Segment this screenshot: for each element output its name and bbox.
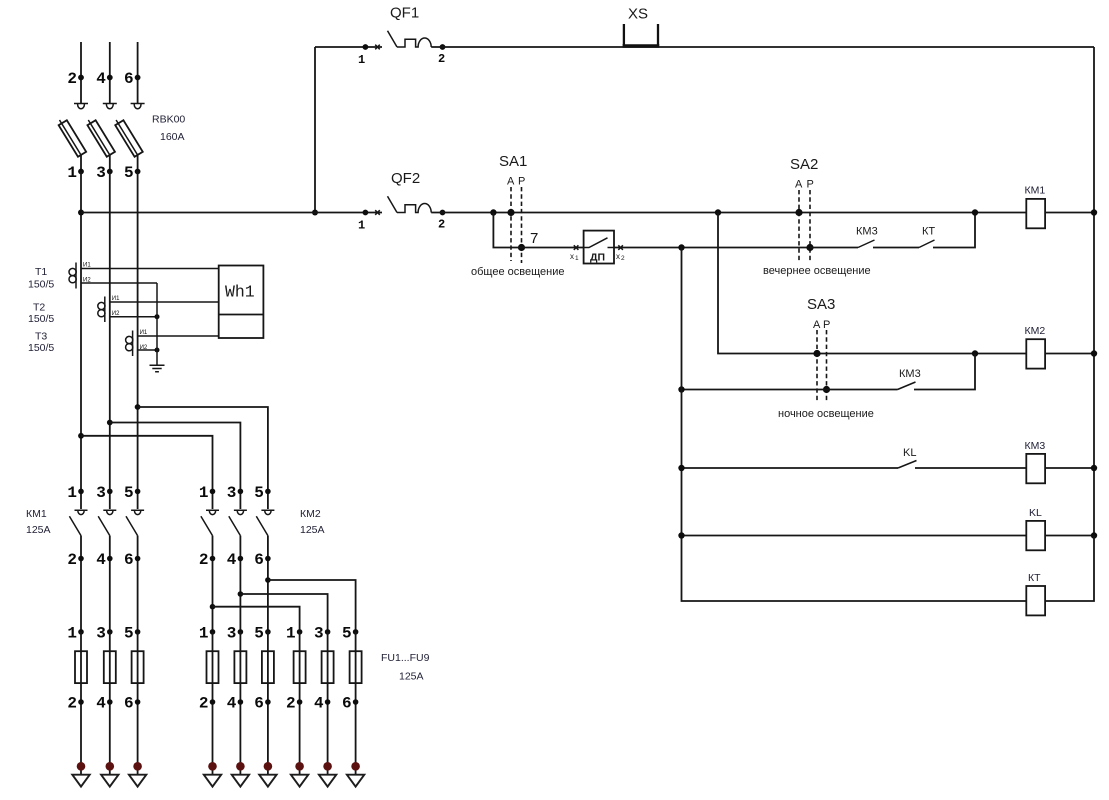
contact KT row2 — [873, 226, 935, 248]
svg-text:5: 5 — [254, 484, 264, 502]
wire row5 — [682, 467, 899, 469]
svg-text:6: 6 — [254, 551, 264, 569]
svg-text:5: 5 — [254, 624, 264, 642]
svg-text:КМ1: КМ1 — [1025, 185, 1046, 197]
wire KM1 coil to rail — [1045, 212, 1094, 214]
node rail row5 — [1091, 465, 1097, 471]
svg-text:1: 1 — [67, 624, 77, 642]
svg-text:XS: XS — [628, 6, 648, 23]
svg-text:Р: Р — [518, 176, 525, 188]
svg-text:Wh1: Wh1 — [225, 283, 255, 302]
fuse RBK00 pole A — [59, 120, 87, 172]
ground — [150, 365, 165, 371]
switch SA3 — [813, 319, 830, 402]
svg-text:5: 5 — [124, 164, 134, 182]
node KM2 feed phase C — [135, 404, 141, 410]
contact KM3 row2 — [810, 226, 878, 248]
svg-text:FU1...FU9: FU1...FU9 — [381, 652, 430, 664]
coil KM1 — [1025, 185, 1046, 229]
contactor KM2 pole 3 — [254, 484, 274, 632]
wire row5 to KM3 coil — [915, 467, 1026, 469]
svg-text:2: 2 — [67, 70, 77, 88]
wire feeder branch to FU column 8 — [240, 594, 327, 632]
node T2 return junction — [155, 314, 160, 319]
wire control line left segment — [81, 212, 382, 214]
svg-text:SA2: SA2 — [790, 156, 818, 173]
terminal 1 — [78, 169, 84, 175]
svg-text:KL: KL — [903, 447, 916, 459]
fuse RBK00 pole C — [115, 120, 143, 172]
wire KM2 feed phase A — [81, 436, 213, 509]
fuse FU3 feeder — [124, 624, 146, 786]
svg-text:4: 4 — [96, 551, 106, 569]
svg-text:160А: 160А — [160, 131, 185, 143]
wire riser to top line — [314, 47, 316, 213]
svg-text:КМ3: КМ3 — [856, 226, 878, 238]
CT T2 — [98, 296, 120, 322]
svg-text:4: 4 — [227, 695, 237, 713]
svg-text:И1: И1 — [83, 263, 91, 269]
node phase A / control tap — [78, 210, 84, 216]
node feeder branch 2 — [210, 604, 216, 610]
svg-text:Т1: Т1 — [35, 266, 47, 278]
node KM2 feed phase A — [78, 433, 84, 439]
svg-text:ночное освещение: ночное освещение — [778, 408, 874, 420]
wire KM2 feed phase B — [110, 423, 241, 510]
pin x1 — [574, 245, 579, 250]
node T3 return junction — [155, 348, 160, 353]
svg-text:КТ: КТ — [1028, 572, 1041, 584]
svg-text:И1: И1 — [112, 296, 120, 302]
svg-text:Т3: Т3 — [35, 331, 47, 343]
svg-text:1: 1 — [575, 255, 579, 262]
svg-text:вечернее освещение: вечернее освещение — [763, 265, 871, 277]
terminal 5 — [135, 169, 141, 175]
svg-text:4: 4 — [96, 695, 106, 713]
fuse FU5 feeder — [227, 624, 249, 786]
svg-text:3: 3 — [96, 484, 106, 502]
fuse FU9 feeder — [342, 624, 364, 786]
wire feeder branch to FU column 9 — [268, 580, 356, 632]
terminal 2 — [78, 75, 84, 81]
svg-text:QF2: QF2 — [391, 170, 420, 187]
node row4/row3 join — [972, 350, 978, 356]
svg-text:KL: KL — [1029, 507, 1042, 519]
wire top line right segment — [431, 46, 1094, 48]
svg-text:1: 1 — [67, 164, 77, 182]
wire KM3 coil to rail — [1045, 467, 1094, 469]
svg-text:А: А — [507, 176, 515, 188]
contact KM3 row4 — [898, 368, 921, 390]
svg-text:4: 4 — [227, 551, 237, 569]
node row2/row1 join — [972, 209, 978, 215]
svg-text:SA3: SA3 — [807, 296, 835, 313]
svg-text:А: А — [813, 319, 821, 331]
svg-text:И1: И1 — [140, 330, 148, 336]
wire input phase C — [137, 42, 139, 104]
svg-text:А: А — [795, 179, 803, 191]
fuse RBK00 pole B — [87, 120, 115, 172]
wire row4 riser — [914, 354, 975, 390]
svg-text:3: 3 — [314, 624, 324, 642]
wire phase A vertical — [80, 172, 82, 510]
switch SA1 — [507, 176, 525, 264]
svg-text:Р: Р — [807, 179, 814, 191]
svg-text:2: 2 — [438, 52, 445, 66]
node rail row1 — [1091, 209, 1097, 215]
contactor KM1 pole 3 — [124, 484, 144, 632]
svg-text:x: x — [616, 252, 620, 261]
node left rail row5 — [678, 465, 684, 471]
switch SA2 — [795, 179, 814, 263]
meter Wh1 — [219, 266, 264, 339]
wire KM2 feed phase C — [138, 407, 268, 509]
wire KT coil to rail — [1045, 536, 1094, 602]
node feeder branch 6 — [265, 577, 271, 583]
terminal 6 — [135, 75, 141, 81]
wire T1 secondary to Wh1 — [81, 268, 219, 270]
svg-text:6: 6 — [124, 695, 134, 713]
fuse FU2 feeder — [96, 624, 118, 786]
contactor KM1 pole 1 — [67, 484, 87, 632]
terminal 4 — [107, 75, 113, 81]
wire T2 secondary return — [110, 316, 157, 318]
wire input phase A — [80, 42, 82, 104]
svg-text:КМ2: КМ2 — [300, 508, 321, 520]
contactor KM1 pole 2 — [96, 484, 116, 632]
photo sensor DP — [584, 231, 614, 264]
svg-text:Р: Р — [823, 319, 830, 331]
wire KM2 coil to rail — [1045, 353, 1094, 355]
svg-text:6: 6 — [124, 551, 134, 569]
socket XS — [623, 24, 660, 46]
svg-text:2: 2 — [438, 218, 445, 232]
svg-text:6: 6 — [342, 695, 352, 713]
svg-text:2: 2 — [199, 695, 209, 713]
socket contact phase C — [131, 104, 145, 109]
wire input phase B — [109, 42, 111, 104]
svg-text:1: 1 — [358, 53, 365, 67]
svg-text:3: 3 — [227, 624, 237, 642]
wire T1 secondary return — [81, 282, 157, 284]
svg-text:ДП: ДП — [590, 252, 605, 264]
svg-text:2: 2 — [199, 551, 209, 569]
node KM2 feed phase B — [107, 420, 113, 426]
node left rail row6 — [678, 532, 684, 538]
node feeder branch 4 — [238, 591, 244, 597]
breaker QF2 — [358, 196, 445, 232]
wire row3 — [718, 213, 1026, 354]
svg-text:3: 3 — [96, 164, 106, 182]
svg-text:4: 4 — [96, 70, 106, 88]
svg-text:5: 5 — [342, 624, 352, 642]
fuse FU1 feeder — [67, 624, 89, 786]
svg-text:1: 1 — [199, 484, 209, 502]
terminal 3 — [107, 169, 113, 175]
wire KL coil to rail — [1045, 535, 1094, 537]
svg-text:5: 5 — [124, 624, 134, 642]
svg-text:2: 2 — [67, 695, 77, 713]
svg-text:КМ1: КМ1 — [26, 508, 47, 520]
wire T3 secondary return — [138, 349, 157, 351]
svg-text:6: 6 — [124, 70, 134, 88]
breaker QF1 — [358, 31, 445, 67]
svg-text:3: 3 — [96, 624, 106, 642]
wire right rail — [1093, 47, 1095, 536]
svg-text:2: 2 — [67, 551, 77, 569]
wire DP to left rail — [614, 247, 810, 249]
wire row2 riser — [933, 213, 975, 248]
svg-text:1: 1 — [199, 624, 209, 642]
svg-text:150/5: 150/5 — [28, 342, 54, 354]
fuse FU7 feeder — [286, 624, 308, 786]
wire phase C vertical — [137, 172, 139, 510]
node row3 tap — [715, 209, 721, 215]
svg-text:1: 1 — [358, 219, 365, 233]
svg-text:1: 1 — [286, 624, 296, 642]
wire control line to KM1 coil — [431, 212, 1026, 214]
wire row4 — [682, 389, 898, 391]
svg-text:1: 1 — [67, 484, 77, 502]
socket contact phase B — [103, 104, 117, 109]
svg-text:2: 2 — [286, 695, 296, 713]
socket contact phase A — [74, 104, 88, 109]
svg-text:SA1: SA1 — [499, 153, 527, 170]
svg-text:125А: 125А — [300, 524, 325, 536]
svg-text:КТ: КТ — [922, 226, 935, 238]
wire row6 — [682, 535, 1027, 537]
svg-text:QF1: QF1 — [390, 5, 419, 22]
svg-text:КМ2: КМ2 — [1025, 325, 1046, 337]
coil KM3 — [1025, 440, 1046, 483]
svg-text:RBK00: RBK00 — [152, 114, 185, 126]
fuse FU8 feeder — [314, 624, 336, 786]
svg-text:2: 2 — [621, 255, 625, 262]
svg-text:4: 4 — [314, 695, 324, 713]
contactor KM2 pole 1 — [199, 484, 219, 632]
fuse FU6 feeder — [254, 624, 276, 786]
node rail row6 — [1091, 532, 1097, 538]
wire left rail — [682, 248, 1027, 602]
contact KL row5 — [898, 447, 917, 468]
fuse FU4 feeder — [199, 624, 221, 786]
coil KT — [1026, 572, 1045, 615]
svg-text:7: 7 — [530, 230, 538, 247]
wire T3 secondary to Wh1 — [138, 335, 219, 337]
svg-text:125А: 125А — [26, 524, 51, 536]
svg-text:125А: 125А — [399, 671, 424, 683]
coil KL — [1026, 507, 1045, 550]
wire feeder branch to FU column 7 — [213, 607, 300, 632]
CT T1 — [69, 263, 91, 289]
wire SA1 branch down — [493, 213, 521, 248]
svg-text:6: 6 — [254, 695, 264, 713]
node riser / control line — [312, 210, 318, 216]
wire SA1 to DP — [522, 247, 584, 249]
svg-text:3: 3 — [227, 484, 237, 502]
svg-text:Т2: Т2 — [33, 302, 45, 314]
node left rail row4 — [678, 386, 684, 392]
wire common return to ground — [156, 283, 158, 365]
wire T2 secondary to Wh1 — [110, 301, 219, 303]
CT T3 — [126, 330, 148, 356]
svg-text:КМ3: КМ3 — [899, 368, 921, 380]
coil KM2 — [1025, 325, 1046, 369]
node left rail top — [678, 244, 684, 250]
node rail row3 — [1091, 350, 1097, 356]
wire top line left segment — [315, 46, 382, 48]
svg-text:общее освещение: общее освещение — [471, 266, 564, 278]
wire phase B vertical — [109, 172, 111, 510]
svg-text:x: x — [570, 252, 574, 261]
pin x2 — [618, 245, 623, 250]
node SA1 branch — [490, 209, 496, 215]
contactor KM2 pole 2 — [227, 484, 247, 632]
svg-text:150/5: 150/5 — [28, 279, 54, 291]
svg-text:5: 5 — [124, 484, 134, 502]
svg-text:150/5: 150/5 — [28, 313, 54, 325]
svg-text:КМ3: КМ3 — [1025, 440, 1046, 452]
